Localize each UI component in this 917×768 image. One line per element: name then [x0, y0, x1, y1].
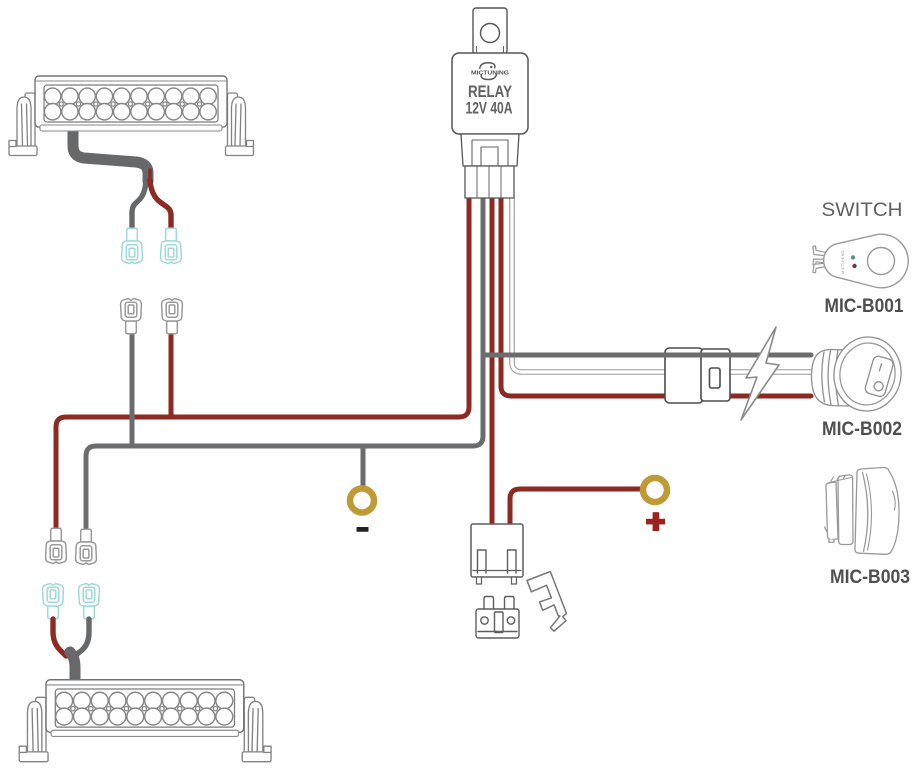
- terminal: bar2 cyan disconnect red: [43, 584, 64, 619]
- svg-text:RELAY: RELAY: [468, 83, 512, 101]
- lightning bolt: [741, 327, 779, 420]
- svg-text:SWITCH: SWITCH: [822, 199, 903, 221]
- wire: red main horizontal y=417 relay pin1 -> left drop: [56, 198, 469, 527]
- wire: red + ring -> fuse box: [510, 489, 643, 525]
- wire: gray horizontal to switch (over connector): [483, 353, 811, 358]
- wire: bar1 main cable: [73, 129, 148, 181]
- svg-text:MIC-B003: MIC-B003: [830, 567, 910, 588]
- relay tab notches: [477, 46, 504, 54]
- svg-text:MICTUNING: MICTUNING: [840, 250, 845, 274]
- svg-text:12V 40A: 12V 40A: [466, 100, 513, 118]
- minus label: [357, 527, 369, 532]
- wire: gray from top-bar male terminal down (crosses red): [130, 332, 135, 446]
- relay mounting tab: [473, 8, 507, 54]
- connector block on switch harness: [665, 348, 730, 403]
- terminal: harness white disconnect on red drop: [46, 528, 67, 563]
- plus label: [646, 512, 665, 531]
- light bar 1 cable: [73, 129, 171, 229]
- wire: gray pigtail of bar1: [132, 178, 146, 229]
- terminal: female disconnect (cyan) on bar1 gray wire: [122, 228, 143, 263]
- svg-text:MICTUNING: MICTUNING: [471, 71, 509, 77]
- relay socket tier 2: [465, 166, 514, 198]
- terminal: harness female disconnect (white) red wire: [162, 299, 183, 334]
- switch MIC-B002: [812, 333, 906, 416]
- wire: gray drop to minus ring: [361, 446, 366, 487]
- light bar 2 cable: [53, 619, 89, 682]
- minus ring terminal: [350, 489, 374, 513]
- fuse holder box: [471, 524, 523, 577]
- switch MIC-B001: [813, 234, 908, 288]
- wire: gray pigtail of bar2: [76, 619, 89, 655]
- relay body: [452, 53, 528, 134]
- wire: gray main horizontal y=446 relay -> left drop: [86, 198, 483, 529]
- wire: red feed to top bar (from relay pin, T at x=171): [169, 332, 174, 417]
- terminal: female disconnect (cyan) on bar1 red wire: [161, 228, 182, 263]
- LED light bar 1: [9, 76, 254, 156]
- wire: bar2 main cable: [70, 652, 75, 682]
- wire: red pigtail of bar1: [150, 180, 171, 229]
- terminal: harness female disconnect (white) gray wire: [121, 299, 142, 334]
- plus ring terminal: [643, 478, 667, 502]
- svg-text:MIC-B002: MIC-B002: [822, 419, 902, 440]
- switch MIC-B003: [825, 467, 900, 554]
- relay socket tier 1: [461, 134, 519, 166]
- wire: red vertical relay -> fuse box: [490, 198, 495, 525]
- wire: red pigtail of bar2: [53, 619, 66, 656]
- wire: red horizontal relay -> switch (right): [501, 198, 811, 396]
- svg-text:MIC-B001: MIC-B001: [825, 296, 904, 317]
- inline connector housing: [665, 348, 703, 403]
- terminal: harness white disconnect on gray drop: [76, 529, 97, 564]
- terminal: bar2 cyan disconnect gray: [79, 584, 100, 619]
- relay logo MICTUNING: [471, 63, 509, 80]
- LED light bar 2: [19, 680, 271, 762]
- wire: red sliver at cable split: [148, 170, 152, 184]
- fuse cover: [527, 572, 567, 632]
- blade fuse: [476, 597, 519, 639]
- wire: white relay -> switch (right): [512, 198, 811, 372]
